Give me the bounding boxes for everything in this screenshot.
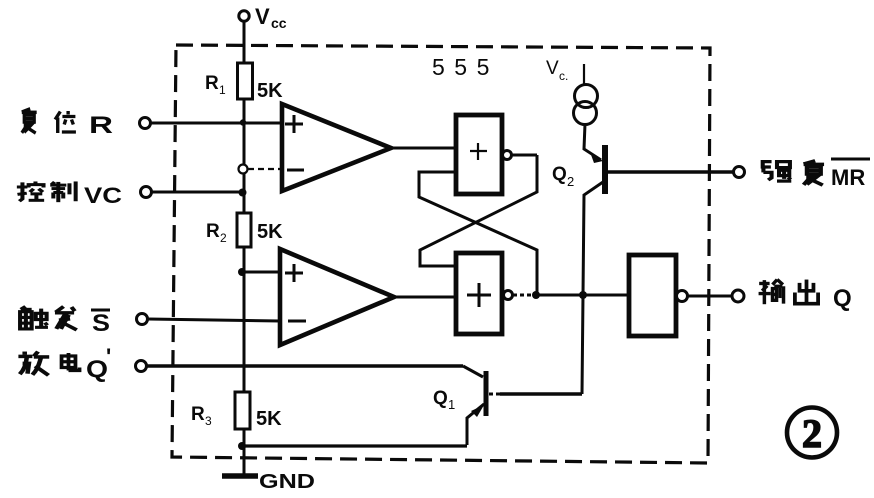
current source (two circles) xyxy=(575,85,598,108)
wire reset R to comparator + xyxy=(151,122,282,125)
output bubble latch2 xyxy=(504,291,513,300)
wire vcc rail divider x=244 xyxy=(243,22,246,471)
buffer block xyxy=(629,255,676,336)
svg-text:cc: cc xyxy=(271,15,287,31)
arrow Q1 emitter xyxy=(471,405,484,417)
ground xyxy=(243,430,246,476)
svg-text:Q: Q xyxy=(552,164,567,185)
svg-text:V: V xyxy=(546,58,559,79)
svg-text:1: 1 xyxy=(219,83,226,97)
label control VC (Chinese) xyxy=(17,181,44,201)
wire trigger S to comparator2 minus xyxy=(148,319,280,321)
svg-text:5K: 5K xyxy=(257,80,283,102)
transistor Q1 bar xyxy=(484,371,489,416)
svg-text:2: 2 xyxy=(567,174,574,189)
wire comparator1 out to latch1 xyxy=(391,147,456,150)
svg-text:GND: GND xyxy=(259,471,315,493)
figure number circled 2 xyxy=(787,408,837,458)
terminal discharge Q' xyxy=(136,361,147,372)
wire tap to comparator1 minus (dashed) xyxy=(248,168,283,170)
junction control/divider xyxy=(239,189,247,197)
output bubble buffer xyxy=(677,291,688,302)
wire cross-coupling latch1 input to latch2 output xyxy=(419,172,537,295)
node circle R1-R2 tap xyxy=(239,165,248,174)
junction Q2 emitter on output line xyxy=(579,291,587,299)
label trigger S (Chinese) xyxy=(20,307,48,329)
wire Q1 emitter to divider bottom xyxy=(242,444,467,447)
junction at divider bottom xyxy=(238,442,246,450)
terminal trigger S xyxy=(137,314,148,325)
resistor R3 xyxy=(235,392,250,429)
svg-text:R: R xyxy=(205,73,219,94)
terminal MR xyxy=(734,167,745,178)
wire discharge diag into Q1 xyxy=(463,366,483,377)
wire Q2 down-lead xyxy=(582,182,603,394)
resistor R2 xyxy=(237,213,251,247)
wire control VC to divider xyxy=(152,191,242,194)
resistor R1 xyxy=(238,63,253,99)
transistor Q2 bar xyxy=(602,145,608,194)
op-amp comparator 1 xyxy=(282,104,391,191)
wire latch2 out (dash-dot) xyxy=(513,294,533,297)
latch block 2 xyxy=(456,253,502,334)
svg-text:R: R xyxy=(191,404,205,425)
wire tap to comparator2 plus xyxy=(242,271,280,274)
output bubble latch1 xyxy=(503,151,512,160)
border dashed box of 555 IC xyxy=(172,45,710,463)
node on divider at reset wire xyxy=(240,119,246,125)
wire latch1 out xyxy=(512,154,537,157)
terminal reset R xyxy=(140,118,151,129)
wire buffer to output terminal xyxy=(688,295,732,298)
svg-text:Q: Q xyxy=(86,356,108,383)
wire comparator2 out to latch2 xyxy=(394,296,456,299)
svg-text:555: 555 xyxy=(432,54,499,80)
junction R2-R3 tap xyxy=(238,268,246,276)
svg-text:Q: Q xyxy=(433,388,448,409)
op-amp comparator 2 xyxy=(280,249,394,345)
junction cross-couple on output line xyxy=(532,291,540,299)
svg-text:5K: 5K xyxy=(256,408,282,430)
wire stub from Vc xyxy=(583,64,585,85)
svg-text:R: R xyxy=(206,221,220,242)
svg-text:2: 2 xyxy=(802,411,822,456)
svg-text:2: 2 xyxy=(220,231,227,245)
wire current source to Q2 xyxy=(584,124,601,160)
svg-text:Q: Q xyxy=(833,285,852,312)
svg-text:V: V xyxy=(255,4,270,29)
svg-text:VC: VC xyxy=(84,183,122,208)
svg-text:S: S xyxy=(92,310,110,337)
svg-text:1: 1 xyxy=(448,397,455,412)
svg-text:c.: c. xyxy=(559,69,568,83)
wire Q2 base to MR terminal xyxy=(608,170,733,173)
wire Q1 emitter xyxy=(467,404,484,445)
wire cross-coupling latch1 output to latch2 input xyxy=(420,155,537,266)
terminal output Q xyxy=(732,290,744,302)
terminal control VC xyxy=(141,187,152,198)
arrow into Q2 base bar xyxy=(590,152,603,163)
svg-text:MR: MR xyxy=(831,165,865,190)
wire Q2 lead to Q1 base xyxy=(500,392,582,396)
wire output line to buffer xyxy=(536,294,629,297)
svg-text:': ' xyxy=(106,344,111,369)
wire discharge to transistor Q1 collector xyxy=(147,364,463,367)
svg-text:R: R xyxy=(89,112,113,139)
label reset R (Chinese) xyxy=(22,109,37,133)
latch block 1 xyxy=(456,115,502,194)
svg-text:3: 3 xyxy=(205,414,212,428)
label output Q (Chinese) xyxy=(759,280,784,305)
terminal Vcc xyxy=(239,11,249,21)
svg-text:5K: 5K xyxy=(257,221,283,243)
label discharge Q' (Chinese) xyxy=(18,352,49,376)
label force reset MR (Chinese) xyxy=(763,162,792,181)
